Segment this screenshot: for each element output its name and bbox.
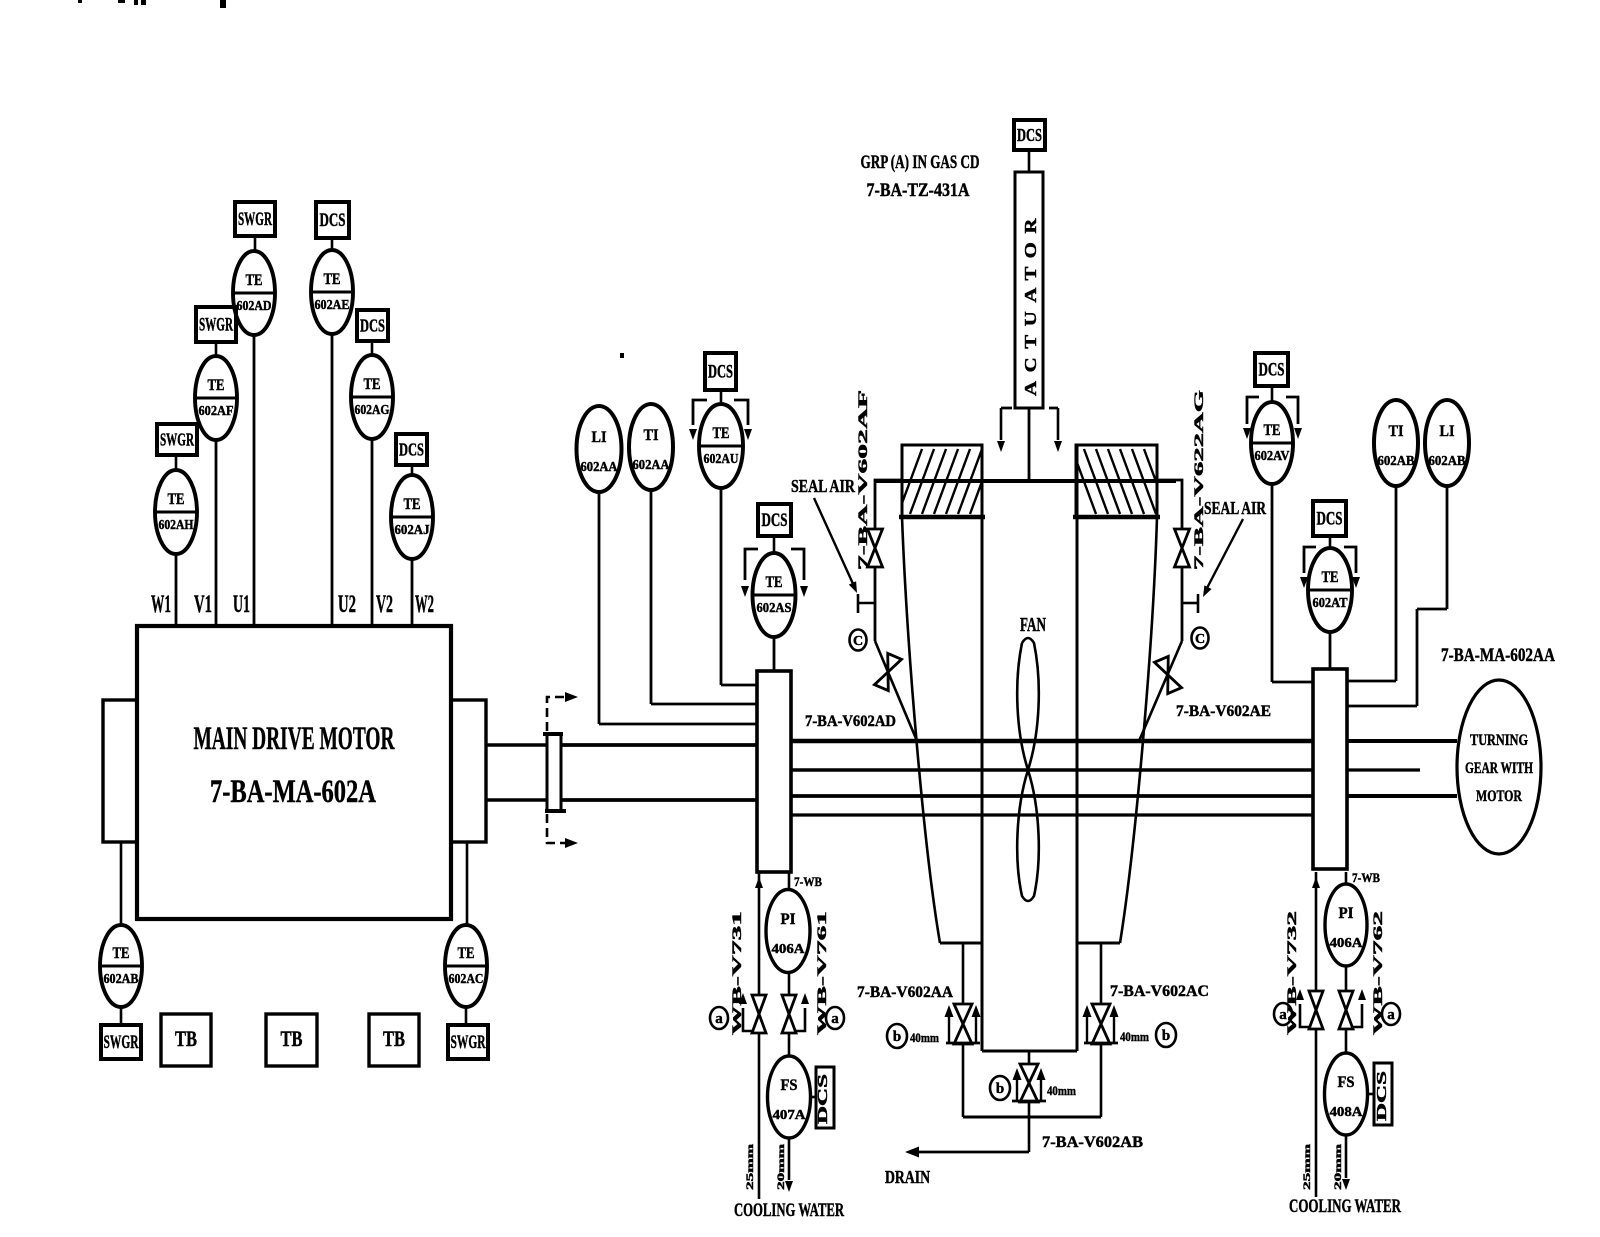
instrument TE 602AD [233, 251, 275, 335]
svg-text:SEAL AIR: SEAL AIR [791, 476, 856, 496]
shaft right bearing to turning gear upper [1347, 739, 1457, 743]
instrument TE 602AE [311, 250, 353, 334]
valve 7-BA-V602AB [1020, 1064, 1038, 1102]
valve WB-V762 [1339, 991, 1353, 1029]
valve WB-V732 [1309, 991, 1323, 1029]
svg-text:SWGR: SWGR [160, 430, 195, 450]
drain collect line [963, 1116, 1101, 1119]
SEAL AIR label left [791, 476, 856, 496]
label 7-BA-V602AC [1110, 983, 1209, 1000]
fan shaft line 4 [791, 813, 1313, 816]
svg-text:LI: LI [1440, 423, 1455, 440]
SWGR box below TE 602AC [448, 1025, 488, 1059]
instrument TE 602AG [351, 355, 393, 439]
fan shaft line 1 [791, 739, 1313, 744]
DCS box above TE 602AG [357, 310, 388, 341]
node b right [1156, 1023, 1176, 1047]
svg-text:TE: TE [766, 574, 783, 591]
svg-text:ACTUATOR: ACTUATOR [1021, 210, 1040, 396]
shaft coupling to left bearing upper [561, 743, 757, 747]
svg-text:40mm: 40mm [1047, 1083, 1076, 1098]
right cooling outlet arrow [1342, 1135, 1350, 1190]
arrow bracket left of valve WB-V731 [739, 993, 752, 1031]
svg-text:SWGR: SWGR [199, 315, 233, 336]
terminal box TB 1 [161, 1014, 211, 1066]
turning gear with motor [1457, 680, 1541, 854]
arrows at valve 7-BA-V602AA [945, 1005, 981, 1043]
seal air pipe left [875, 480, 902, 641]
wire LI 602AA hook to left bearing [599, 723, 757, 726]
svg-text:TE: TE [1264, 422, 1281, 439]
instrument TE 602AJ [391, 475, 433, 559]
valve 7-BA-V602AA [954, 1004, 972, 1044]
svg-text:b: b [1162, 1028, 1170, 1044]
seal air tap tick left [858, 594, 875, 613]
svg-text:40mm: 40mm [910, 1030, 939, 1045]
arrow bracket left of valve WB-V732 [1296, 989, 1309, 1027]
svg-text:406A: 406A [1330, 935, 1363, 950]
svg-text:DCS: DCS [708, 362, 733, 383]
shaft right bearing to turning gear lower [1347, 794, 1457, 798]
left cooling return pipe top [788, 872, 791, 890]
wire V1 from TE 602AF to motor [215, 439, 218, 626]
shaft motor to coupling lower line [486, 798, 547, 802]
instrument LI 602AB [1425, 400, 1469, 486]
wire TE 602AU down [720, 488, 723, 685]
valve WB-V731 [752, 995, 766, 1033]
svg-text:602AV: 602AV [1255, 448, 1290, 463]
svg-text:PI: PI [1339, 905, 1354, 922]
svg-text:FAN: FAN [1020, 614, 1046, 636]
terminal box TB 2 [266, 1014, 317, 1066]
svg-text:U1: U1 [233, 591, 250, 618]
svg-text:WB-V761: WB-V761 [815, 911, 829, 1035]
svg-text:7-BA-MA-602A: 7-BA-MA-602A [210, 774, 376, 810]
label 7-WB right [1352, 870, 1380, 885]
svg-text:TE: TE [1322, 569, 1339, 586]
shaft stub right of bearing [1347, 768, 1420, 771]
terminal label W2 [415, 591, 434, 618]
actuator stem [1028, 408, 1031, 481]
label 7-BA-V602AD [805, 713, 896, 730]
svg-text:SEAL AIR: SEAL AIR [1204, 498, 1267, 518]
DCS box above TE 602AV [1255, 353, 1288, 386]
instrument TI 602AA [629, 404, 673, 490]
svg-text:DCS: DCS [360, 316, 385, 336]
label 7-BA-MA-602AA [1441, 645, 1555, 666]
pipe valve to FS [788, 1033, 791, 1056]
svg-text:TE: TE [404, 496, 421, 513]
left fan bearing [757, 671, 791, 872]
svg-text:V2: V2 [376, 591, 393, 618]
svg-text:TB: TB [175, 1026, 197, 1051]
motor right end housing [451, 700, 486, 842]
node a left2 [826, 1007, 844, 1029]
svg-text:DCS: DCS [1259, 360, 1285, 381]
right seal gland box hatched [1072, 445, 1168, 517]
svg-text:602AC: 602AC [449, 971, 484, 986]
instrument TE 602AT [1308, 548, 1352, 632]
fan shaft line 2 [791, 768, 1313, 772]
actuator body [1015, 172, 1043, 408]
terminal label U1 [233, 591, 250, 618]
shaft motor to coupling upper line [486, 743, 547, 747]
wire DCS to TE 602AV [1271, 386, 1274, 401]
svg-text:TE: TE [713, 425, 730, 442]
instrument TE 602AB [100, 925, 142, 1007]
wire W2 from TE 602AJ to motor [411, 558, 414, 626]
label 25mm right [1303, 1144, 1313, 1190]
actuator left arrow [997, 408, 1005, 452]
wire U2 from TE 602AE to motor [331, 333, 334, 626]
wire SWGR to TE 602AD [254, 236, 257, 252]
shaft coupling to left bearing lower [561, 798, 757, 802]
wire SWGR to TE 602AH [175, 455, 178, 470]
svg-text:602AA: 602AA [633, 457, 670, 472]
seal air pipe right [1157, 480, 1182, 641]
pipe PI to valve right [1345, 966, 1348, 992]
SWGR box above TE 602AH [157, 424, 197, 455]
wire TI 602AB to bearing [1347, 486, 1396, 681]
DCS arrows onto TE 602AS [741, 549, 808, 597]
node C left [850, 630, 867, 651]
svg-text:7-WB: 7-WB [1352, 870, 1380, 885]
seal air arrow left [814, 498, 857, 593]
svg-text:25mm: 25mm [1303, 1144, 1313, 1190]
svg-text:LI: LI [592, 429, 607, 446]
node b center [990, 1076, 1010, 1100]
wire TI 602AA down [650, 490, 653, 704]
svg-text:7-BA-V602AD: 7-BA-V602AD [805, 713, 896, 730]
DCS box above TE 602AJ [396, 434, 427, 465]
label 25mm left [746, 1144, 756, 1190]
instrument FS 408A [1325, 1053, 1368, 1135]
svg-text:TE: TE [208, 377, 225, 394]
svg-text:a: a [1387, 1007, 1395, 1023]
fan inner duct right wall [1076, 445, 1079, 1051]
DCS arrows onto TE 602AU [689, 400, 752, 440]
svg-text:C: C [1195, 632, 1205, 647]
instrument TE 602AV [1251, 402, 1293, 484]
instrument TE 602AH [155, 470, 197, 554]
SWGR box below TE 602AB [101, 1025, 141, 1059]
svg-text:GRP (A) IN GAS CD: GRP (A) IN GAS CD [861, 152, 980, 173]
svg-text:SWGR: SWGR [238, 209, 272, 230]
svg-text:MOTOR: MOTOR [1476, 788, 1522, 805]
COOLING WATER label right [1289, 1196, 1401, 1217]
svg-text:602AJ: 602AJ [395, 522, 430, 537]
label 7-BA-V602AE [1176, 703, 1271, 720]
instrument FS 407A [768, 1056, 811, 1138]
svg-text:602AB: 602AB [1378, 453, 1415, 468]
wire TE 602AT to bearing [1329, 632, 1332, 669]
FAN label [1020, 614, 1046, 636]
svg-text:WB-V732: WB-V732 [1285, 911, 1299, 1035]
arrow bracket right of valve WB-V761 [796, 993, 809, 1031]
terminal label U2 [338, 591, 356, 618]
pipe valve to FS right [1345, 1029, 1348, 1053]
svg-text:a: a [831, 1011, 839, 1027]
seal air arrow right [1203, 519, 1243, 597]
svg-text:WB-V762: WB-V762 [1371, 911, 1385, 1035]
svg-text:602AG: 602AG [355, 402, 390, 417]
instrument TI 602AB [1374, 400, 1418, 486]
wire TE 602AV down [1272, 484, 1313, 682]
svg-text:TI: TI [1389, 423, 1404, 440]
pipe PI to valve [788, 972, 791, 996]
svg-text:7-WB: 7-WB [794, 874, 822, 889]
fan inner duct bottom [982, 1050, 1077, 1053]
svg-text:25mm: 25mm [746, 1144, 756, 1190]
SWGR box above TE 602AF [196, 307, 236, 342]
svg-text:602AT: 602AT [1313, 595, 1348, 610]
fan casing right bottom [1077, 942, 1120, 945]
svg-text:SWGR: SWGR [451, 1032, 486, 1053]
svg-text:GEAR WITH: GEAR WITH [1465, 760, 1533, 777]
svg-text:FS: FS [781, 1077, 798, 1094]
svg-text:TE: TE [364, 376, 381, 393]
svg-text:TURNING: TURNING [1470, 732, 1528, 749]
scan dot artifact [620, 353, 624, 358]
SWGR box above TE 602AD [235, 202, 275, 236]
label 7-BA-V602AA [857, 984, 953, 1001]
terminal label W1 [151, 591, 171, 618]
svg-text:TI: TI [644, 427, 659, 444]
svg-text:DCS: DCS [399, 440, 424, 460]
wire DCS to TE 602AT [1329, 536, 1332, 550]
fan casing top line [875, 479, 1176, 483]
instrument TE 602AF [195, 356, 237, 440]
DCS box above TE 602AS [758, 504, 791, 536]
svg-text:TE: TE [458, 945, 475, 962]
label WB-V731 vertical [730, 911, 744, 1035]
wire U1 from TE 602AD to motor [253, 334, 256, 626]
left cooling supply pipe [755, 872, 763, 1199]
arrows at valve 7-BA-V602AB [1012, 1068, 1046, 1101]
svg-text:DCS: DCS [1374, 1071, 1389, 1121]
svg-text:b: b [893, 1029, 901, 1045]
instrument TE 602AS [753, 553, 796, 637]
svg-text:TE: TE [246, 272, 263, 289]
left seal gland box hatched [898, 445, 994, 517]
label WB-V732 vertical [1285, 911, 1299, 1035]
terminal label V2 [376, 591, 393, 618]
svg-text:TE: TE [168, 491, 185, 508]
fan blade [1017, 638, 1039, 901]
fan casing left wall [902, 517, 940, 943]
terminal box TB 3 [369, 1014, 419, 1066]
wire TE 602AC to SWGR [465, 1007, 468, 1025]
svg-text:7-BA-V622AG: 7-BA-V622AG [1191, 390, 1206, 570]
svg-text:40mm: 40mm [1120, 1029, 1149, 1044]
svg-text:a: a [715, 1011, 723, 1027]
right fan bearing [1313, 669, 1347, 869]
svg-text:7-BA-V602AE: 7-BA-V602AE [1176, 703, 1271, 720]
svg-text:TE: TE [324, 271, 341, 288]
GRP note text [861, 152, 980, 201]
svg-text:408A: 408A [1330, 1104, 1363, 1119]
svg-text:7-BA-V602AF: 7-BA-V602AF [855, 390, 870, 570]
svg-text:DCS: DCS [320, 210, 346, 231]
svg-text:b: b [996, 1081, 1004, 1097]
svg-text:602AB: 602AB [104, 971, 139, 986]
label 7-BA-V602AF vertical [855, 390, 870, 570]
svg-text:COOLING WATER: COOLING WATER [1289, 1196, 1401, 1217]
arrows at valve 7-BA-V602AC [1083, 1005, 1119, 1043]
svg-text:602AA: 602AA [581, 459, 618, 474]
DCS box beside FS 407A [811, 1067, 834, 1128]
label 20mm right [1334, 1144, 1344, 1190]
DCS arrows onto TE 602AT [1300, 547, 1360, 588]
wire TE 602AS to bearing [773, 637, 776, 671]
svg-text:602AU: 602AU [704, 451, 739, 466]
wire DCS to TE 602AE [331, 238, 334, 251]
DCS box above actuator [1014, 120, 1045, 150]
svg-text:DCS: DCS [1017, 125, 1042, 145]
right cooling supply pipe [1312, 872, 1320, 1197]
wire DCS to TE 602AU [720, 390, 723, 404]
wire TE 602AU hook to left bearing [721, 684, 757, 687]
fan inner duct left wall [981, 445, 984, 1051]
instrument TE 602AC [445, 925, 487, 1007]
actuator bottom bar [1001, 407, 1058, 410]
DRAIN label [885, 1167, 930, 1187]
terminal label V1 [194, 591, 212, 618]
instrument PI 406A right [1325, 884, 1367, 966]
svg-text:V1: V1 [194, 591, 212, 618]
scan artifact marks top edge [78, 0, 226, 8]
actuator right arrow [1054, 408, 1062, 452]
right cooling return pipe top [1345, 872, 1348, 884]
node b left with 40mm [887, 1024, 907, 1048]
svg-text:602AS: 602AS [757, 600, 792, 615]
wire motor to TE 602AC [466, 842, 469, 925]
instrument LI 602AA [577, 406, 622, 492]
label 7-WB left [794, 874, 822, 889]
arrow bracket right of valve WB-V762 [1353, 989, 1366, 1027]
svg-text:602AF: 602AF [199, 403, 234, 418]
label WB-V761 vertical [815, 911, 829, 1035]
svg-text:TE: TE [113, 945, 130, 962]
svg-text:20mm: 20mm [1334, 1144, 1344, 1190]
wire motor to TE 602AB [120, 842, 123, 925]
seal pipe diagonal to hub right [1139, 641, 1182, 741]
wire LI 602AB to bearing [1347, 486, 1447, 706]
wire DCS to TE 602AG [371, 341, 374, 356]
SEAL AIR label right [1204, 498, 1267, 518]
valve 7-BA-V602AD [874, 653, 901, 690]
left drain drop pipe [962, 943, 965, 1117]
wire V2 from TE 602AG to motor [371, 438, 374, 626]
svg-text:DCS: DCS [1317, 509, 1343, 530]
svg-text:DCS: DCS [815, 1074, 830, 1124]
fan casing left bottom [940, 942, 982, 945]
break arrow above coupling [547, 692, 578, 731]
seal air tap tick right [1182, 594, 1198, 613]
fan casing right wall [1120, 517, 1157, 943]
main drive motor 7-BA-MA-602A body [137, 626, 451, 919]
svg-text:W1: W1 [151, 591, 171, 618]
svg-text:7-BA-MA-602AA: 7-BA-MA-602AA [1441, 645, 1555, 666]
svg-text:TB: TB [281, 1026, 303, 1051]
label 7-BA-V622AG vertical [1191, 390, 1206, 570]
svg-text:WB-V731: WB-V731 [730, 911, 744, 1035]
svg-text:DRAIN: DRAIN [885, 1167, 930, 1187]
svg-text:COOLING WATER: COOLING WATER [734, 1200, 844, 1221]
valve WB-V761 [782, 995, 796, 1033]
wire DCS to actuator [1028, 150, 1031, 172]
node a right2 [1382, 1003, 1400, 1025]
wire DCS to TE 602AJ [411, 465, 414, 476]
node a left1 [710, 1007, 728, 1029]
svg-text:TB: TB [383, 1026, 405, 1051]
wire SWGR to TE 602AF [215, 342, 218, 357]
svg-text:7-BA-V602AC: 7-BA-V602AC [1110, 983, 1209, 1000]
fan shaft line 3 [791, 794, 1313, 798]
svg-text:DCS: DCS [762, 510, 788, 531]
instrument PI 406A left [766, 890, 810, 973]
svg-text:602AD: 602AD [237, 298, 272, 313]
label 20mm left [777, 1144, 787, 1190]
right drain drop pipe [1100, 943, 1103, 1117]
svg-text:7-BA-TZ-431A: 7-BA-TZ-431A [867, 180, 970, 201]
left cooling outlet arrow [785, 1138, 793, 1192]
node a right1 [1274, 1003, 1292, 1025]
svg-text:602AB: 602AB [1429, 453, 1466, 468]
label 7-BA-V602AB [1042, 1134, 1143, 1151]
DCS box above TE 602AE [316, 202, 349, 238]
node C right [1192, 628, 1209, 649]
svg-text:U2: U2 [338, 591, 356, 618]
DCS box beside FS 408A [1367, 1063, 1392, 1125]
svg-text:407A: 407A [773, 1107, 806, 1122]
label WB-V762 vertical [1371, 911, 1385, 1035]
svg-text:20mm: 20mm [777, 1144, 787, 1190]
svg-text:PI: PI [781, 911, 796, 928]
break arrow below coupling [547, 814, 578, 848]
valve 7-BA-V602AE [1154, 656, 1181, 693]
COOLING WATER label left [734, 1200, 844, 1221]
drain outlet line with arrow [905, 1147, 1029, 1158]
svg-text:602AH: 602AH [159, 517, 194, 532]
shaft coupling [543, 734, 566, 811]
svg-text:406A: 406A [772, 941, 805, 956]
wire TI 602AA hook to left bearing [651, 703, 757, 706]
svg-text:FS: FS [1338, 1074, 1355, 1091]
valve 7-BA-V602AF [868, 529, 883, 567]
valve 7-BA-V602AC [1092, 1004, 1110, 1044]
svg-text:SWGR: SWGR [104, 1032, 139, 1053]
wire DCS to TE 602AS [773, 536, 776, 553]
wire TE 602AB to SWGR [120, 1007, 123, 1025]
instrument TE 602AU [699, 404, 743, 488]
valve 7-BA-V622AG [1175, 529, 1190, 567]
DCS box above TE 602AT [1313, 501, 1346, 536]
svg-text:W2: W2 [415, 591, 434, 618]
svg-text:C: C [853, 634, 863, 649]
wire LI 602AA down [598, 492, 601, 724]
svg-text:MAIN DRIVE MOTOR: MAIN DRIVE MOTOR [194, 721, 396, 757]
seal pipe diagonal to hub left [875, 641, 917, 741]
center drain pipe [1028, 1051, 1031, 1152]
svg-text:7-BA-V602AB: 7-BA-V602AB [1042, 1134, 1143, 1151]
svg-text:7-BA-V602AA: 7-BA-V602AA [857, 984, 953, 1001]
motor left end housing [103, 700, 137, 842]
DCS box above TE 602AU [705, 353, 736, 390]
wire W1 from TE 602AH to motor [175, 553, 178, 626]
svg-text:602AE: 602AE [315, 297, 350, 312]
DCS arrows onto TE 602AV [1243, 397, 1302, 439]
